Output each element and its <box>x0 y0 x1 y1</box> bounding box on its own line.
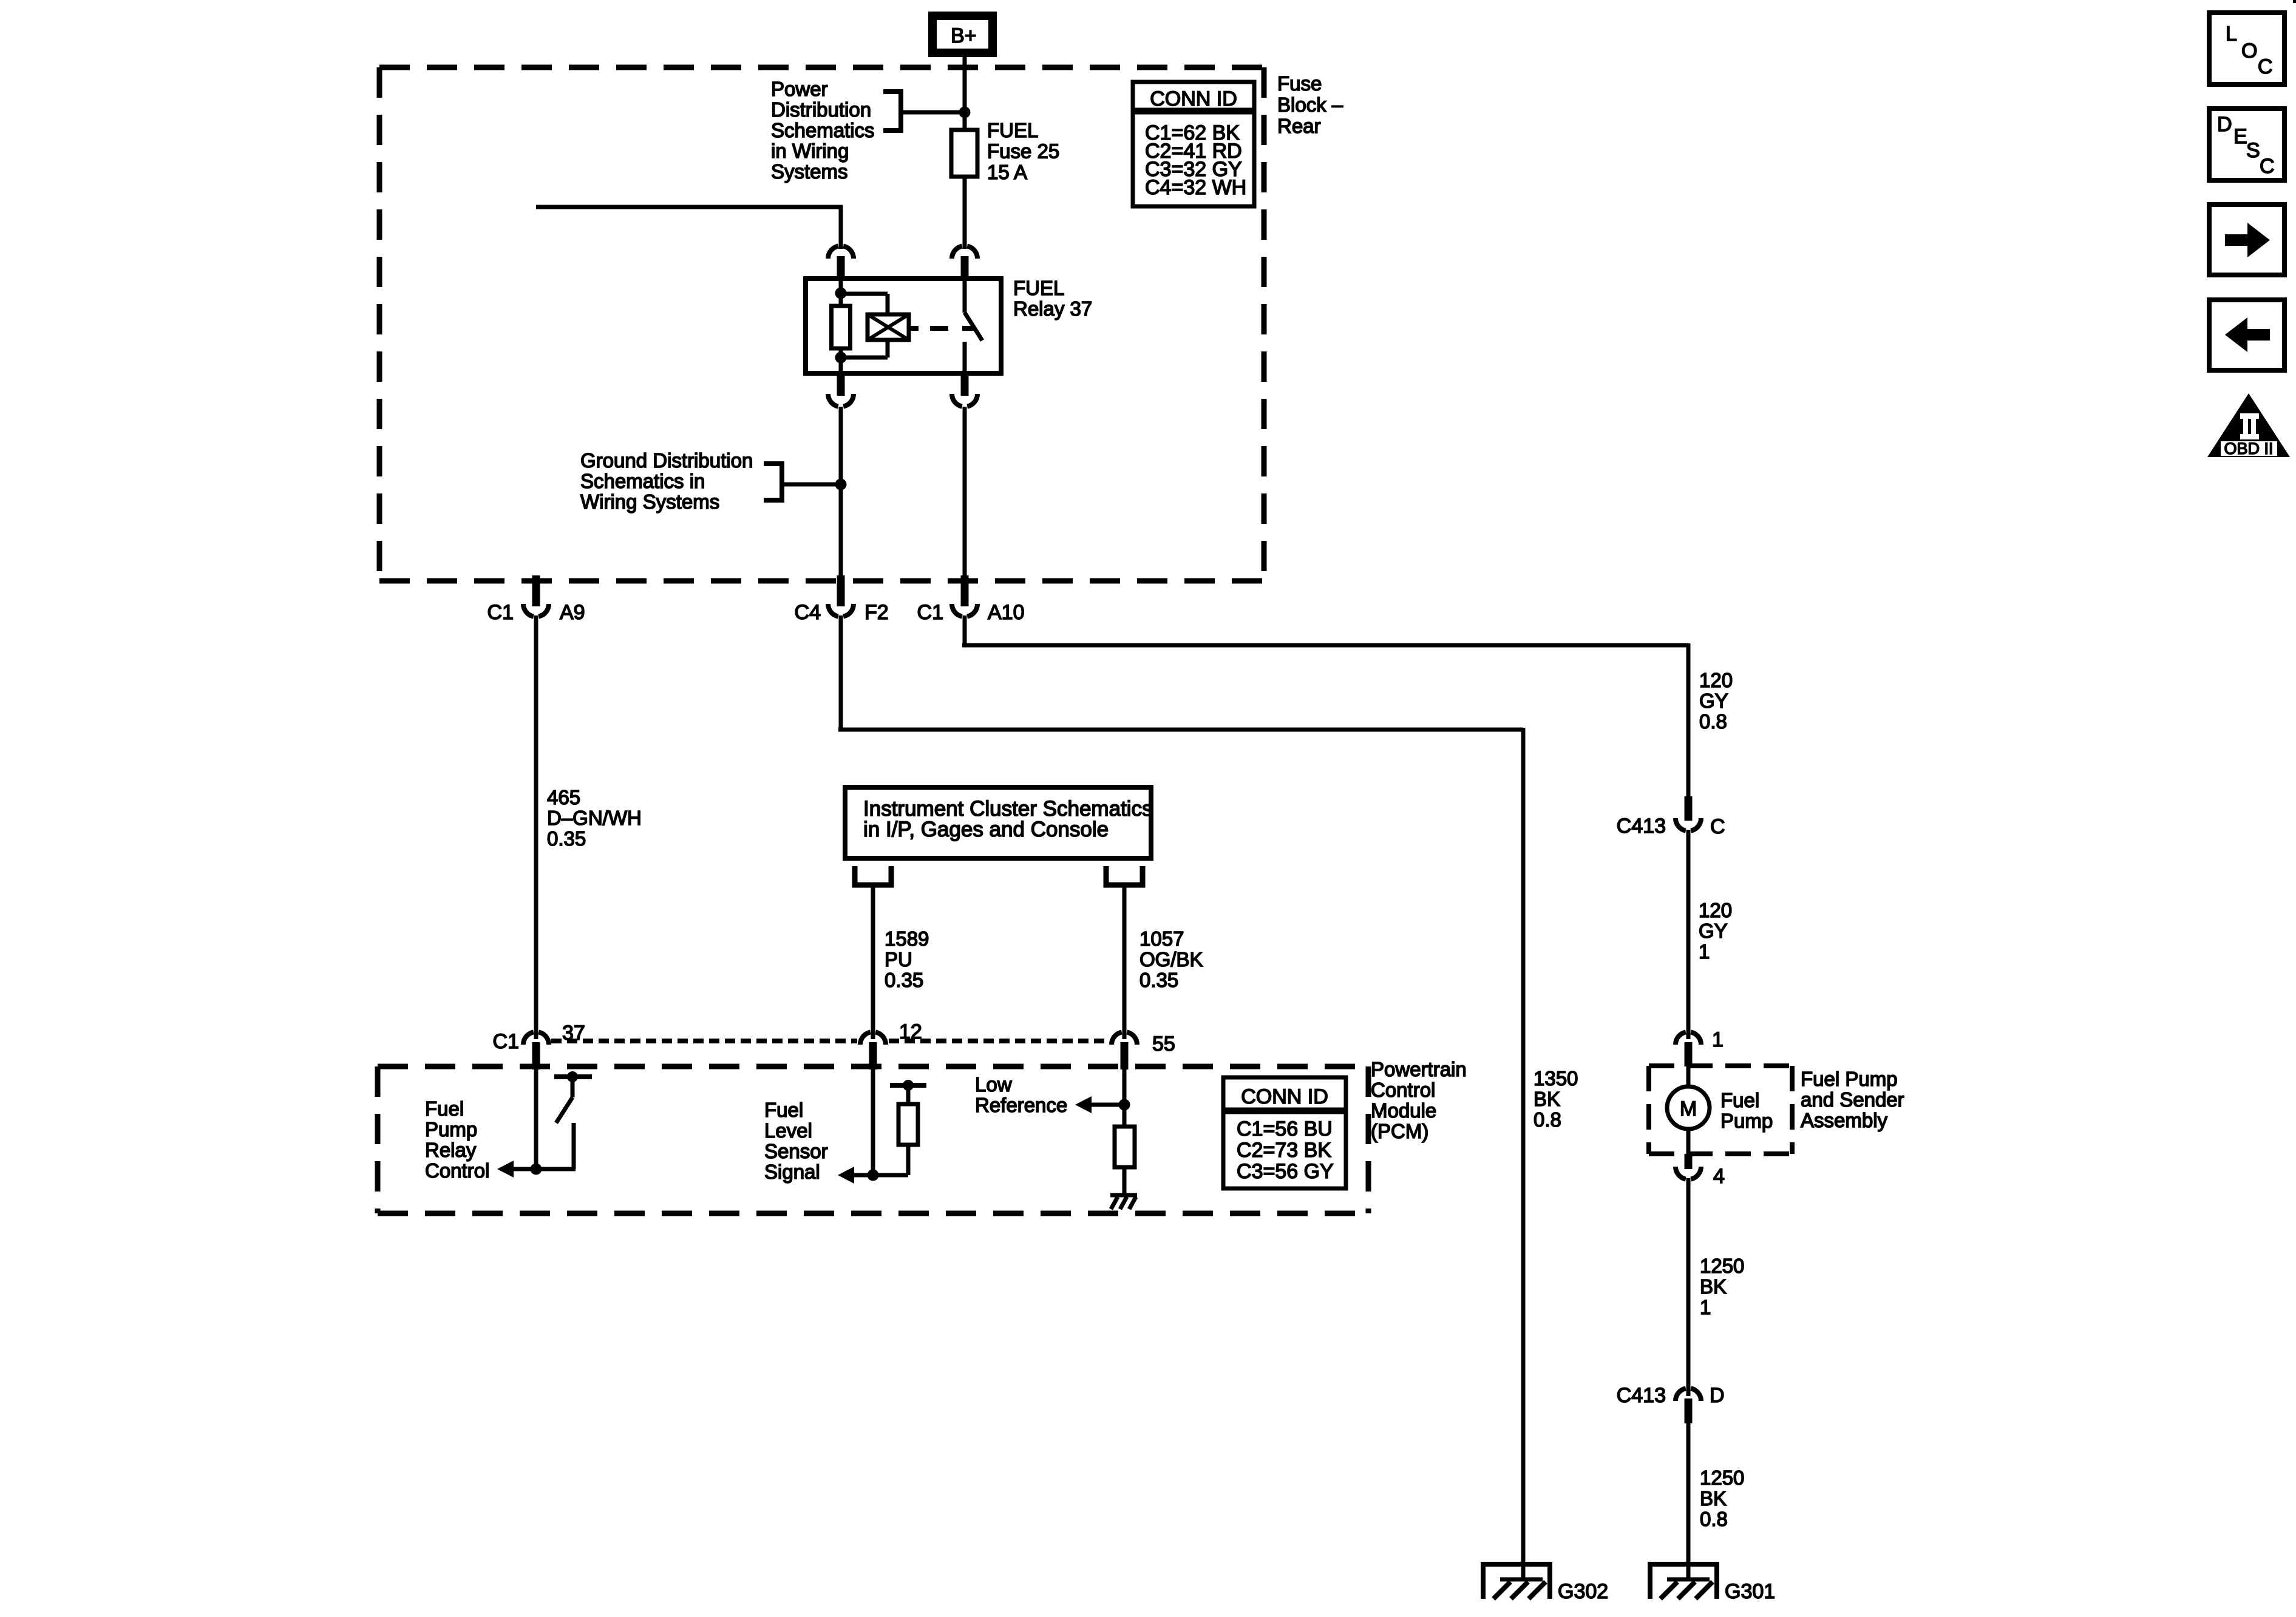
instrument cluster right lead bracket <box>1106 866 1143 885</box>
driver switch contact bar <box>554 1074 592 1079</box>
svg-text:B+: B+ <box>951 24 977 47</box>
svg-text:Fuel: Fuel <box>764 1099 803 1121</box>
svg-text:4: 4 <box>1713 1165 1725 1188</box>
svg-text:1589: 1589 <box>885 927 929 950</box>
icon arrow left box <box>2209 300 2284 370</box>
connector relay coil pin top <box>828 246 854 259</box>
svg-text:0.8: 0.8 <box>1700 1508 1728 1530</box>
svg-text:Low: Low <box>975 1073 1012 1096</box>
svg-text:Relay 37: Relay 37 <box>1013 297 1092 320</box>
driver switch blade <box>571 1079 575 1097</box>
svg-text:G302: G302 <box>1558 1580 1608 1603</box>
wire 120 GY 1 <box>1686 830 1691 1039</box>
svg-text:55: 55 <box>1152 1032 1175 1056</box>
svg-text:C: C <box>2260 155 2275 178</box>
svg-text:1: 1 <box>1700 1296 1711 1318</box>
node fuel pump relay control <box>531 1164 542 1175</box>
svg-text:C1: C1 <box>917 601 943 624</box>
connector pin 55 <box>1112 1032 1137 1045</box>
node power distribution tap <box>959 107 971 118</box>
svg-text:OG/BK: OG/BK <box>1140 948 1203 971</box>
fuse FUEL Fuse 25 15 A <box>951 130 977 177</box>
connector C1 pin A10 <box>961 575 969 606</box>
svg-text:GY: GY <box>1699 920 1728 942</box>
arrow fuel level sensor signal <box>852 1173 873 1178</box>
powertrain control module dashed outline <box>378 1064 1368 1070</box>
svg-text:FUEL: FUEL <box>987 119 1038 141</box>
svg-text:465: 465 <box>547 786 580 808</box>
svg-text:Power: Power <box>771 78 828 100</box>
ground internal pcm <box>1110 1193 1137 1198</box>
svg-text:Fuel: Fuel <box>1720 1089 1759 1111</box>
pcm pin header dashed line <box>551 1039 857 1043</box>
svg-text:Fuel Pump: Fuel Pump <box>1801 1068 1898 1090</box>
CONN ID table pcm <box>1223 1077 1346 1188</box>
fuel pump and sender assembly dashed outline <box>1649 1063 1792 1068</box>
svg-text:C413: C413 <box>1617 815 1666 838</box>
svg-text:C4: C4 <box>795 601 821 624</box>
svg-text:Assembly: Assembly <box>1801 1109 1888 1131</box>
connector fuel pump pin 1 <box>1676 1032 1701 1045</box>
svg-text:Level: Level <box>764 1119 812 1142</box>
node relay coil top <box>835 288 847 299</box>
relay actuator dashed link <box>909 326 919 331</box>
svg-text:Rear: Rear <box>1277 115 1321 137</box>
svg-text:D: D <box>1710 1384 1725 1407</box>
svg-text:OBD II: OBD II <box>2224 439 2273 458</box>
wire pin 55 to low reference node <box>1123 1070 1127 1127</box>
connector C1 pin 37 <box>523 1032 549 1045</box>
svg-text:D: D <box>2217 113 2232 136</box>
svg-text:Module: Module <box>1371 1099 1436 1122</box>
svg-text:L: L <box>2226 22 2237 46</box>
wire fuse to relay <box>963 177 967 249</box>
resistor low reference <box>1115 1127 1135 1167</box>
svg-text:BK: BK <box>1533 1088 1560 1110</box>
instrument cluster left lead bracket <box>855 866 891 885</box>
svg-text:0.35: 0.35 <box>547 827 586 850</box>
svg-text:S: S <box>2246 139 2260 162</box>
fuse block - rear dashed outline <box>379 65 1264 70</box>
svg-text:Ground Distribution: Ground Distribution <box>580 449 753 472</box>
svg-text:37: 37 <box>562 1022 585 1045</box>
relay coil wire <box>839 279 843 306</box>
svg-text:Fuse 25: Fuse 25 <box>987 140 1059 163</box>
wire relay switch to connector A10 <box>963 407 967 578</box>
arrow fuel pump relay control <box>511 1167 536 1171</box>
battery feed terminal B+ <box>932 16 993 53</box>
svg-text:C1: C1 <box>487 601 514 624</box>
wire pin 12 to sense node <box>871 1070 875 1175</box>
connector relay coil pin bottom <box>837 376 845 396</box>
svg-text:Powertrain: Powertrain <box>1371 1058 1467 1080</box>
icon arrow right box <box>2209 205 2284 275</box>
connector fuel pump pin 4 <box>1685 1154 1693 1169</box>
svg-text:0.8: 0.8 <box>1533 1108 1561 1131</box>
wire relay coil to connector F2 <box>839 407 843 578</box>
svg-text:(PCM): (PCM) <box>1371 1120 1428 1142</box>
svg-text:C4=32 WH: C4=32 WH <box>1145 176 1246 199</box>
svg-text:F2: F2 <box>864 601 889 624</box>
svg-text:BK: BK <box>1700 1487 1727 1510</box>
svg-text:C3=56 GY: C3=56 GY <box>1237 1160 1334 1183</box>
svg-text:and Sender: and Sender <box>1801 1088 1904 1111</box>
wire 1057 OG/BK circuit <box>1123 887 1127 1039</box>
svg-text:FUEL: FUEL <box>1013 277 1064 299</box>
svg-text:M: M <box>1680 1097 1697 1120</box>
wire 1250 BK 1 <box>1686 1178 1691 1396</box>
callout Instrument Cluster Schematics box <box>845 787 1151 858</box>
svg-text:1: 1 <box>1712 1028 1724 1051</box>
svg-text:D–GN/WH: D–GN/WH <box>547 807 642 829</box>
svg-text:Reference: Reference <box>975 1094 1067 1116</box>
pullup bar pin 12 <box>890 1083 926 1088</box>
ground G302 <box>1483 1564 1550 1599</box>
wire 1250 BK 0.8 <box>1686 1423 1691 1579</box>
connector relay switch pin top <box>952 246 977 259</box>
svg-text:120: 120 <box>1699 669 1733 691</box>
svg-text:Distribution: Distribution <box>771 98 871 121</box>
svg-text:1250: 1250 <box>1700 1255 1744 1277</box>
svg-text:Pump: Pump <box>1720 1110 1773 1132</box>
relay FUEL Relay 37 box <box>806 279 1001 373</box>
wire 465 D-GN/WH circuit <box>534 615 538 1039</box>
arrow low reference <box>1089 1103 1124 1107</box>
node fuel level sensor signal <box>868 1170 879 1181</box>
svg-text:Control: Control <box>425 1159 489 1182</box>
resistor fuel level sense <box>898 1104 918 1145</box>
wire 1589 PU circuit <box>871 887 875 1039</box>
svg-text:0.35: 0.35 <box>1140 969 1178 991</box>
svg-text:15 A: 15 A <box>987 161 1027 183</box>
connector pin 12 <box>860 1032 886 1045</box>
svg-text:Block –: Block – <box>1277 93 1343 116</box>
svg-text:Relay: Relay <box>425 1139 477 1161</box>
svg-text:C2=73 BK: C2=73 BK <box>1237 1139 1331 1162</box>
relay coil X-box <box>868 314 909 340</box>
svg-text:C1=56 BU: C1=56 BU <box>1237 1117 1333 1141</box>
bracket ground distribution <box>764 464 782 500</box>
svg-text:Sensor: Sensor <box>764 1140 828 1162</box>
svg-text:1057: 1057 <box>1140 927 1184 950</box>
svg-text:0.8: 0.8 <box>1699 710 1727 733</box>
svg-text:C: C <box>2258 55 2273 78</box>
wire 1350 BK circuit <box>839 615 843 730</box>
connector relay switch pin bottom <box>961 376 969 396</box>
svg-text:C1: C1 <box>493 1030 519 1053</box>
connector C413 pin D <box>1676 1388 1701 1401</box>
CONN ID table fuse block <box>1133 82 1254 206</box>
page corner mark <box>2293 0 2296 3</box>
svg-text:Pump: Pump <box>425 1118 477 1141</box>
svg-text:E: E <box>2233 125 2247 148</box>
connector C1 pin A9 <box>532 575 540 606</box>
wire B+ to FUEL fuse <box>963 56 967 130</box>
svg-text:CONN ID: CONN ID <box>1150 87 1237 110</box>
svg-text:A10: A10 <box>988 601 1025 624</box>
bracket power distribution <box>883 92 901 131</box>
svg-text:A9: A9 <box>560 601 585 624</box>
svg-text:in Wiring: in Wiring <box>771 140 849 162</box>
icon DESC box <box>2209 109 2284 180</box>
svg-text:C: C <box>1710 815 1725 838</box>
svg-text:Control: Control <box>1371 1079 1435 1101</box>
svg-text:12: 12 <box>899 1020 922 1043</box>
wire to relay coil pin <box>536 205 843 209</box>
svg-text:0.35: 0.35 <box>885 969 923 991</box>
node relay coil bottom <box>839 348 843 376</box>
svg-text:120: 120 <box>1699 899 1732 921</box>
svg-text:1250: 1250 <box>1700 1466 1744 1489</box>
node low reference <box>1119 1099 1130 1111</box>
svg-text:GY: GY <box>1699 690 1728 712</box>
svg-text:BK: BK <box>1700 1275 1727 1298</box>
node ground distribution tap <box>835 479 847 490</box>
connector C4 pin F2 <box>837 575 845 606</box>
resistor relay internal <box>832 306 851 348</box>
svg-text:1: 1 <box>1699 940 1710 963</box>
svg-text:C413: C413 <box>1617 1384 1666 1407</box>
svg-text:PU: PU <box>885 948 912 971</box>
icon OBD II triangle <box>2207 393 2290 457</box>
svg-text:Fuel: Fuel <box>425 1097 464 1120</box>
svg-text:in I/P, Gages and Console: in I/P, Gages and Console <box>863 818 1109 841</box>
wire pin 37 to driver <box>534 1070 538 1169</box>
icon LOC box <box>2209 13 2284 84</box>
svg-text:Fuse: Fuse <box>1277 72 1322 95</box>
ground G301 <box>1650 1564 1717 1599</box>
svg-text:Wiring Systems: Wiring Systems <box>580 490 719 513</box>
motor fuel pump <box>1686 1066 1691 1087</box>
svg-text:1350: 1350 <box>1533 1067 1578 1090</box>
svg-text:O: O <box>2241 39 2257 63</box>
svg-text:Systems: Systems <box>771 160 848 183</box>
svg-text:G301: G301 <box>1725 1580 1775 1603</box>
wire 120 GY circuit <box>963 615 967 645</box>
svg-text:Schematics in: Schematics in <box>580 470 705 492</box>
svg-text:Signal: Signal <box>764 1161 820 1183</box>
connector C413 pin C <box>1685 796 1693 821</box>
svg-text:CONN ID: CONN ID <box>1241 1085 1328 1108</box>
relay switch blade <box>963 279 967 313</box>
svg-text:Schematics: Schematics <box>771 119 875 141</box>
